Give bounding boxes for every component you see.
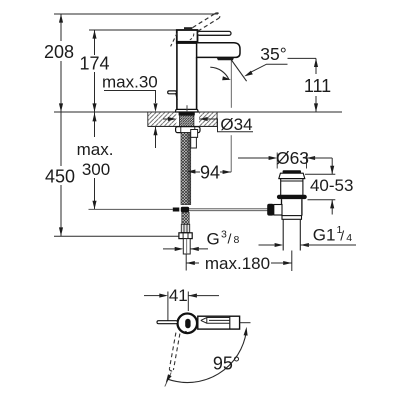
hose lower section [182,212,189,224]
swivel arc [210,67,229,79]
deck left hatch [148,113,176,126]
wire top extension line 208 [54,13,218,15]
extension stream below deck [230,135,232,172]
dimension Ø63 [238,157,269,159]
extension lines 40-53 [305,173,335,175]
dim arrows G1 1/4 [259,244,275,246]
extension line spout outlet [288,57,317,59]
rod clamp left [173,208,180,212]
dimension 208/450 line [60,14,62,236]
arc 95deg [168,332,246,383]
pop-up rod in body [186,105,188,112]
faucet cap U1 [177,30,198,43]
svg-text:3: 3 [221,229,227,241]
body base flange [175,109,198,112]
lever axis extension [165,373,171,387]
lever bar solid [198,31,232,35]
stream centerline [230,60,232,108]
faucet cap bottom band [176,41,198,43]
top view spout end joint [229,316,231,329]
deck top surface line [54,111,342,113]
drain actuator adapter [274,205,282,216]
drain actuator knob [267,204,274,216]
svg-text:/: / [228,231,232,247]
top view popup dot [184,331,187,334]
dimension 94 [195,171,200,173]
reference line 450 bottom [54,235,179,237]
dimension 111 [315,58,317,74]
top view spout [198,316,240,329]
svg-text:max.30: max.30 [102,73,158,92]
dimension 174/max300 line [94,30,96,209]
svg-text:40-53: 40-53 [310,176,353,195]
svg-text:300: 300 [82,160,110,179]
pop-up knob stem [176,94,177,100]
dimension 41 [144,295,160,297]
svg-text:4: 4 [346,232,352,244]
pop-up rod horizontal [89,208,173,210]
hose crimp ribs [181,224,189,232]
base gasket [179,113,195,116]
pop-up knob [168,91,177,94]
svg-text:Ø34: Ø34 [220,115,252,134]
svg-text:174: 174 [79,54,109,74]
leader max.30 [104,91,156,149]
radius line right [240,322,251,324]
deck bottom line [148,125,218,127]
lever down dashes [171,33,178,46]
dimension max.180 [186,262,199,264]
svg-text:Ø63: Ø63 [276,148,309,168]
svg-text:max.180: max.180 [205,254,270,273]
extension bar drain centerline [291,251,293,272]
svg-text:450: 450 [45,167,75,187]
top view body circle [178,314,198,334]
dim arrows G3/8 [163,248,175,250]
locknut washer [176,127,200,133]
svg-text:/: / [340,227,344,243]
spout [197,43,240,58]
rod clamp on hose [181,207,189,213]
hose nipple upper [191,130,198,138]
lever pivot boss [184,27,192,30]
top view lever pill [185,319,190,329]
lever raised dashed [193,13,220,31]
thread in deck hole [180,115,194,126]
drain plug cone [279,173,305,178]
spray direction line 35 [231,60,246,81]
svg-text:95°: 95° [213,354,240,374]
leader Ø34 [199,119,253,132]
deck right hatch [199,113,217,126]
leader 35deg [251,64,288,72]
deck edge left [147,112,149,126]
aerator [217,58,234,60]
flex hose braided [181,133,191,205]
svg-text:8: 8 [234,234,240,246]
top view lever rotated dashed [169,333,180,371]
lever inner dash curl [190,34,194,40]
top view lever over spout [201,318,230,324]
svg-text:94: 94 [200,163,220,183]
svg-text:41: 41 [169,286,188,305]
extension bar body center [187,292,189,312]
drain body bottom lip [282,216,302,220]
deck edge right [216,112,218,126]
svg-text:208: 208 [44,42,74,62]
dimension 40-53 [331,158,333,174]
svg-text:G: G [207,230,220,249]
drain body [282,199,302,216]
svg-text:max.: max. [77,140,114,159]
extension bar rod [167,292,169,322]
extension bar faucet centerline [185,255,187,271]
top view popup rod stub [157,321,178,324]
wire extension line 174 cap top [89,29,177,31]
drain neck [279,179,305,195]
G3/8 tube [183,239,190,254]
faucet body [176,43,178,109]
drain plug cap band [283,170,301,173]
drain flange [277,195,307,199]
hose nipple lower [191,137,197,148]
drain tailpipe [283,219,300,250]
svg-text:111: 111 [304,76,331,96]
dim arrows hole Ø34 [163,118,169,120]
svg-text:G1: G1 [313,225,336,244]
svg-text:35°: 35° [260,44,286,64]
G3/8 nut [179,233,192,239]
